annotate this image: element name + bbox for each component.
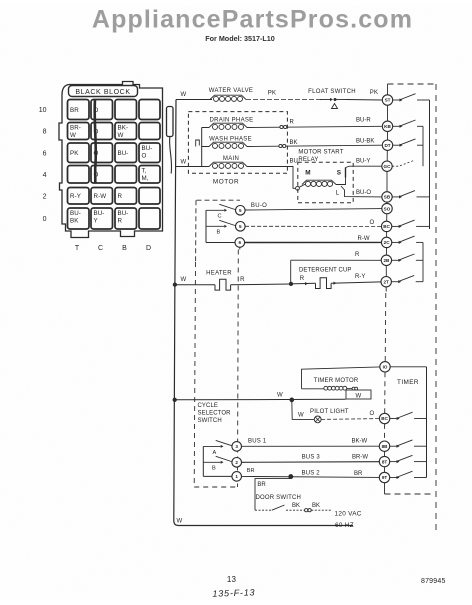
terminal 5 mid <box>236 222 246 232</box>
motor assembly dashed box <box>188 112 287 174</box>
switch contact B bus <box>203 461 220 463</box>
junction connector door <box>305 509 308 512</box>
junction connector drain <box>280 125 283 128</box>
wire connector lead <box>170 137 172 174</box>
wire 5 to SO <box>245 209 382 210</box>
junction bus2/door switch <box>289 475 293 479</box>
wire left supply rail W <box>174 100 353 526</box>
wire 6 stub below <box>239 247 241 249</box>
terminal block cell B6 <box>115 143 137 163</box>
wire drain phase to KB <box>247 126 382 127</box>
switch door switch <box>272 505 285 510</box>
wire IO to rail <box>390 366 426 368</box>
switch contact 2T <box>391 281 398 283</box>
winding drain phase coil <box>209 123 247 127</box>
terminal 2C <box>381 237 391 247</box>
svg-text:For Model: 3517-L10: For Model: 3517-L10 <box>205 34 275 43</box>
switch contact 8B <box>390 445 397 447</box>
wire relay coil to S <box>336 178 346 185</box>
switch contact BC <box>392 225 399 227</box>
relay K1 dashed box MOTOR START RELAY <box>298 162 353 202</box>
wire bus1 to 8B <box>242 445 380 447</box>
wire bracket to 6 <box>206 242 235 244</box>
solenoid water valve coil <box>210 95 246 99</box>
wire to 2B terminal <box>291 259 382 261</box>
node motor box connector mark <box>196 140 200 147</box>
wire heavy bundle through column C <box>95 100 96 184</box>
wire main winding to relay <box>247 167 296 189</box>
terminal DT <box>382 140 392 150</box>
wire timer right rail upper <box>429 100 431 229</box>
switch assembly dashed border top <box>197 199 241 201</box>
wire bracket to 1 <box>203 475 232 477</box>
terminal 9T <box>379 472 389 482</box>
junction rail/W-wire <box>173 398 176 401</box>
lamp pilot light <box>314 416 321 423</box>
wire door switch to supply <box>286 509 305 511</box>
terminal 2B <box>381 255 391 265</box>
terminal block outer outline <box>59 82 163 238</box>
wire selector bracket <box>205 210 207 242</box>
terminal block cell B8 <box>115 123 137 140</box>
terminal SB <box>382 192 392 202</box>
terminal block cell T8 <box>68 123 90 140</box>
wire bus2 to 9T <box>242 476 380 477</box>
switch contact ST <box>393 99 400 101</box>
wire W run to timer motor <box>175 398 346 401</box>
terminal 3 <box>232 442 242 452</box>
cycle selector dashed border right <box>237 250 240 488</box>
wire W feed to main winding <box>175 166 209 168</box>
wire heater to junction <box>231 283 291 286</box>
terminal block cell T0 <box>68 208 90 229</box>
terminal block cell C8 <box>91 123 113 140</box>
switch contact A <box>203 445 220 447</box>
node relay S bar <box>345 168 347 178</box>
wire timer box left border dashed <box>384 293 387 361</box>
switch contact 9T <box>390 477 397 479</box>
terminal 2 <box>232 458 242 468</box>
timer dashed box bottom border <box>385 493 435 495</box>
switch contact C <box>206 209 224 211</box>
wire timer right rail lower <box>426 367 428 478</box>
wire bus bracket <box>202 446 204 476</box>
wire door switch drop <box>255 477 291 511</box>
wire contact rail 2C-2T <box>422 242 424 281</box>
wire W box to rail <box>370 398 372 400</box>
terminal block cell D8 <box>139 123 160 140</box>
terminal block cell T10 <box>68 100 90 120</box>
wire relay S to GC BU-Y <box>346 166 382 167</box>
node W label box <box>346 390 371 399</box>
terminal BC <box>381 221 391 231</box>
winding wash phase coil <box>209 142 247 146</box>
wire water valve row <box>176 99 212 101</box>
relay coil <box>299 184 305 187</box>
wire 5 to BC <box>245 225 381 227</box>
terminal KB <box>382 121 392 131</box>
switch contact GC <box>392 165 399 167</box>
terminal block cell B10 <box>115 100 137 120</box>
terminal block cell D0 <box>139 208 160 229</box>
timer dashed box top border <box>388 83 437 85</box>
wire detergent to 2T <box>331 282 381 283</box>
timer motor coil <box>324 386 328 390</box>
terminal 1 <box>232 472 242 482</box>
switch contact DT <box>393 144 400 146</box>
wire branch up to 2B <box>290 260 292 284</box>
terminal block label BLACK BLOCK <box>69 86 138 97</box>
terminal block cell C2 <box>91 188 113 205</box>
cycle selector dashed border bottom <box>194 486 237 488</box>
winding main coil <box>209 162 247 166</box>
terminal block cell C6 <box>91 143 113 163</box>
terminal SO <box>382 203 392 213</box>
terminal 6 <box>235 238 245 248</box>
terminal block cell C0 <box>91 208 113 229</box>
terminal ST <box>382 95 392 105</box>
terminal block cell D2 <box>139 188 160 205</box>
terminal block cell D4 <box>139 166 160 184</box>
terminal 2T <box>381 277 391 287</box>
switch contact BC lower <box>390 418 397 420</box>
svg-text:879945: 879945 <box>421 578 446 585</box>
wire motor common vertical <box>201 128 203 167</box>
switch contact 8T <box>390 461 397 463</box>
wire contact rail KB-GC <box>422 126 424 166</box>
wire to float switch <box>246 99 321 101</box>
junction heater/detergent <box>289 282 292 285</box>
wire bus3 to 8T <box>242 461 380 464</box>
node float switch triangle <box>332 104 338 109</box>
heater element <box>215 279 231 290</box>
svg-text:13: 13 <box>227 575 237 584</box>
terminal block cell C10 <box>91 100 113 120</box>
connector plug right of block <box>167 107 174 137</box>
switch assembly dashed border left <box>195 200 197 262</box>
junction connector wash <box>279 144 282 147</box>
switch contact B <box>206 225 224 227</box>
detergent cup element <box>316 278 332 289</box>
switch contact KB <box>393 125 400 127</box>
terminal IO <box>380 362 390 372</box>
switch float switch <box>320 99 330 101</box>
terminal 8B <box>379 441 389 451</box>
terminal block cell D6 <box>139 143 160 163</box>
terminal block cell B4 <box>115 166 137 184</box>
svg-text:AppliancePartsPros.com: AppliancePartsPros.com <box>92 6 413 34</box>
wire timer bus vertical segments <box>387 84 389 95</box>
timer motor loop <box>302 367 381 389</box>
switch contact 2C <box>392 241 399 243</box>
cycle selector dashed border left <box>194 262 195 487</box>
terminal block cell B0 <box>115 208 137 229</box>
switch contact SB <box>392 196 399 198</box>
junction rail/heater <box>173 283 176 286</box>
terminal BC <box>379 413 389 423</box>
svg-text:135-F-13: 135-F-13 <box>212 587 255 598</box>
wire door switch bottom <box>255 509 272 511</box>
terminal block cell D10 <box>139 100 160 120</box>
terminal block cell B2 <box>115 188 137 205</box>
terminal 5 upper <box>236 206 246 216</box>
terminal GC <box>382 161 392 171</box>
wire heater row left <box>175 284 215 286</box>
terminal block cell T4 <box>68 166 90 184</box>
terminal block cell T6 <box>68 143 90 163</box>
terminal 8T <box>379 456 389 466</box>
timer dashed box right border <box>435 84 437 530</box>
terminal block cell T2 <box>68 188 90 205</box>
switch contact 2B <box>392 259 399 261</box>
node relay input terminal <box>296 186 300 190</box>
junction W / pilot light <box>290 398 294 402</box>
wire 6 to 2C <box>245 241 382 243</box>
wire detergent left <box>291 282 316 285</box>
wire pilot light branch <box>292 400 314 420</box>
wire wash phase to DT <box>247 145 382 146</box>
wire relay L to SB BU-O <box>341 186 382 197</box>
wire float switch to ST <box>346 99 382 102</box>
wire pilot light to BC <box>321 418 379 421</box>
terminal block cell C4 <box>91 166 113 184</box>
